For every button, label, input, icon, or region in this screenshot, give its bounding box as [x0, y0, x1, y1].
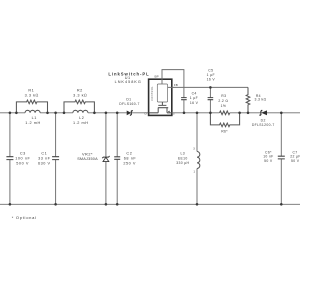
svg-text:DFLS160-7: DFLS160-7 [119, 102, 140, 106]
svg-text:C3: C3 [20, 151, 26, 155]
resistor R2 [64, 100, 94, 113]
svg-text:C5: C5 [208, 68, 213, 72]
svg-text:L1: L1 [32, 116, 37, 120]
svg-text:S: S [173, 112, 175, 116]
svg-text:EE10: EE10 [178, 156, 188, 160]
svg-text:L2: L2 [79, 116, 84, 120]
svg-text:68 nF: 68 nF [124, 156, 137, 160]
svg-text:330 µH: 330 µH [176, 161, 189, 165]
svg-text:LNK458KG: LNK458KG [115, 80, 142, 84]
svg-text:16 V: 16 V [190, 101, 199, 105]
svg-text:500 V: 500 V [16, 162, 29, 166]
svg-text:C4: C4 [192, 92, 197, 96]
svg-text:1.2 mH: 1.2 mH [73, 121, 89, 125]
svg-text:3: 3 [193, 146, 195, 150]
capacitor C2 [116, 113, 118, 205]
junction dots top rail [9, 86, 283, 206]
svg-text:1 µF: 1 µF [207, 73, 215, 77]
svg-text:R3: R3 [221, 94, 226, 98]
svg-text:DFLS1200-7: DFLS1200-7 [252, 123, 275, 127]
svg-text:22 µF: 22 µF [290, 155, 300, 159]
svg-text:1%: 1% [221, 104, 227, 108]
svg-text:50 V: 50 V [291, 159, 300, 163]
svg-text:R2: R2 [77, 89, 83, 93]
junction dot on FB line at C5 [209, 86, 212, 89]
svg-text:C2: C2 [126, 151, 132, 155]
inductor L1 [25, 110, 40, 113]
svg-text:1.2 mH: 1.2 mH [25, 121, 41, 125]
diode D2 [261, 110, 267, 115]
svg-text:3.3 kΩ: 3.3 kΩ [254, 98, 266, 102]
svg-text:FB: FB [174, 83, 178, 87]
svg-text:C1: C1 [41, 151, 47, 155]
inductor L2 [73, 110, 88, 113]
svg-text:R1: R1 [28, 89, 34, 93]
capacitor C1 [55, 113, 57, 205]
svg-text:BP: BP [155, 74, 159, 78]
svg-text:L3: L3 [181, 152, 185, 156]
svg-text:630 V: 630 V [38, 162, 51, 166]
wire bottom rail [0, 203, 300, 205]
svg-text:3.3 kΩ: 3.3 kΩ [73, 93, 87, 97]
junction dots bottom rail [9, 203, 12, 206]
svg-text:CONTROL: CONTROL [150, 86, 154, 101]
svg-text:3.3 kΩ: 3.3 kΩ [25, 93, 39, 97]
op-amp U1 box (LinkSwitch-PL IC) [149, 79, 172, 115]
capacitor C5 [209, 87, 211, 112]
wire top rail left segment [0, 112, 127, 114]
TVS diode VR2 [105, 113, 107, 205]
wire BP pin to C4 [162, 70, 184, 98]
svg-text:250 V: 250 V [123, 162, 136, 166]
capacitor C4 [181, 98, 187, 100]
wire FB line [168, 86, 248, 88]
svg-text:33 nF: 33 nF [38, 156, 51, 160]
resistor R3 [220, 111, 230, 115]
svg-text:50 V: 50 V [264, 159, 273, 163]
svg-text:R6*: R6* [221, 130, 228, 134]
svg-text:* Optional: * Optional [12, 215, 37, 220]
capacitor C6 [280, 113, 282, 205]
svg-text:100 nF: 100 nF [15, 156, 30, 160]
U1 internal control block [157, 84, 167, 102]
wire output line right [267, 112, 300, 114]
resistor R6 [210, 113, 239, 127]
svg-text:1 µF: 1 µF [190, 96, 198, 100]
svg-text:C6*: C6* [265, 150, 272, 154]
svg-text:SMAJ350A: SMAJ350A [77, 157, 98, 161]
capacitor C3 [9, 113, 11, 205]
svg-text:D2: D2 [261, 118, 266, 122]
resistor R4 [246, 87, 250, 112]
inductor L3 [196, 113, 198, 205]
svg-text:C7: C7 [292, 150, 297, 154]
svg-text:1: 1 [193, 170, 195, 174]
svg-text:16 V: 16 V [207, 78, 216, 82]
svg-text:2.2 Ω: 2.2 Ω [218, 99, 228, 103]
diode D1 [127, 112, 149, 114]
resistor R1 [16, 100, 47, 113]
wire S rail [172, 112, 261, 114]
svg-text:10 nF: 10 nF [263, 155, 273, 159]
transistor inside U1 [149, 102, 172, 113]
